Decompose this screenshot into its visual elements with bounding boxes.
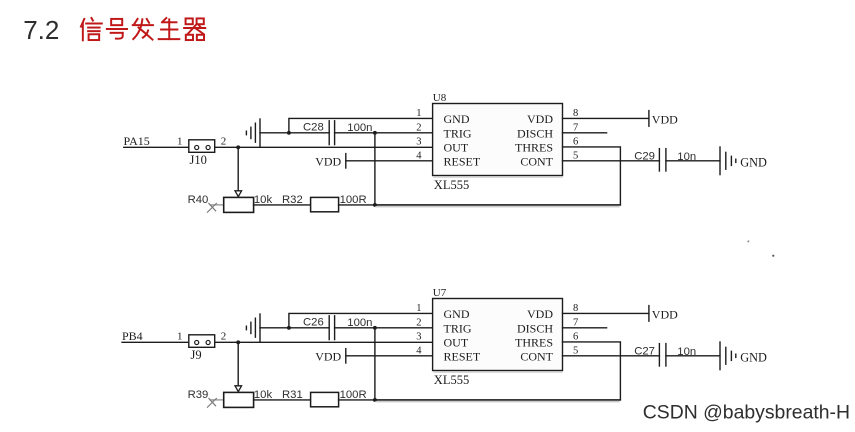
wire junction down to R40 wiper: [237, 147, 239, 190]
svg-text:R40: R40: [188, 194, 209, 206]
connector J10: [189, 140, 215, 153]
wire junction down to R39 wiper: [237, 342, 239, 385]
svg-text:8: 8: [573, 303, 578, 314]
svg-text:TRIG: TRIG: [444, 126, 472, 140]
svg-text:VDD: VDD: [315, 349, 341, 363]
wire PA15 to J10: [124, 146, 189, 148]
svg-text:VDD: VDD: [527, 307, 553, 321]
svg-text:4: 4: [416, 150, 422, 161]
resistor R32: [311, 197, 339, 211]
wire shadow: [376, 401, 619, 403]
junction node at J10 output: [236, 145, 240, 149]
svg-text:R32: R32: [282, 194, 303, 206]
ground symbol (left, at C26/pin1): [259, 314, 261, 342]
capacitor C28: [289, 132, 329, 134]
号: [107, 19, 127, 39]
wire pin7 DISCH stub: [563, 327, 607, 329]
wire TRIG down to RC node: [374, 328, 376, 400]
wire ground to C28 node: [260, 132, 289, 134]
svg-text:CONT: CONT: [520, 155, 553, 169]
svg-text:100n: 100n: [347, 317, 372, 329]
wire TRIG down to RC node: [374, 133, 376, 205]
capacitor C26: [289, 327, 329, 329]
svg-text:5: 5: [573, 150, 578, 161]
svg-text:C26: C26: [303, 317, 324, 329]
op IC U7 body: [433, 299, 563, 371]
svg-text:CONT: CONT: [520, 350, 553, 364]
potentiometer R39: [210, 399, 224, 401]
wire shadow: [434, 371, 562, 373]
svg-text:2: 2: [416, 317, 421, 328]
arrowhead into R39 wiper: [235, 386, 242, 392]
svg-text:GND: GND: [740, 350, 767, 364]
svg-text:2: 2: [221, 331, 227, 343]
svg-text:THRES: THRES: [515, 140, 553, 154]
svg-text:VDD: VDD: [652, 307, 678, 321]
wire pin7 DISCH stub: [563, 132, 607, 134]
svg-text:1: 1: [177, 331, 183, 343]
node at C28 left / pin1 corner: [287, 131, 291, 135]
wire ground to C26 node: [260, 327, 289, 329]
svg-text:U7: U7: [433, 287, 447, 299]
svg-text:C28: C28: [303, 122, 324, 134]
svg-text:6: 6: [573, 137, 578, 148]
svg-text:7: 7: [573, 122, 578, 133]
wire pin8 to VDD port: [563, 312, 649, 314]
wire J9 to IC pin3 OUT: [215, 341, 433, 343]
wire J10 to IC pin3 OUT: [215, 146, 433, 148]
svg-text:100n: 100n: [347, 122, 372, 134]
capacitor C27: [658, 344, 660, 366]
power port VDD right: [648, 306, 650, 322]
svg-text:U8: U8: [433, 92, 447, 104]
wire pin8 to VDD port: [563, 117, 649, 119]
svg-text:PA15: PA15: [124, 134, 150, 148]
svg-text:TRIG: TRIG: [444, 321, 472, 335]
svg-text:DISCH: DISCH: [517, 321, 553, 335]
发: [133, 19, 153, 40]
wire pot to R31: [254, 399, 311, 401]
wire corner up to IC pin1 GND: [289, 118, 433, 132]
svg-text:VDD: VDD: [315, 154, 341, 168]
svg-text:J9: J9: [191, 348, 202, 362]
svg-text:3: 3: [416, 137, 421, 148]
svg-text:PB4: PB4: [122, 329, 143, 343]
svg-text:RESET: RESET: [444, 155, 481, 169]
svg-text:1: 1: [416, 303, 421, 314]
op IC U8 body: [433, 104, 563, 176]
器: [184, 18, 205, 40]
svg-text:10n: 10n: [677, 151, 696, 163]
ground symbol (left, at C28/pin1): [259, 119, 261, 147]
svg-text:CSDN @babysbreath-H: CSDN @babysbreath-H: [643, 401, 850, 423]
信: [81, 18, 102, 40]
svg-text:GND: GND: [740, 155, 767, 169]
wire corner up to IC pin1 GND: [289, 313, 433, 327]
junction node TRIG tie: [373, 326, 377, 330]
node at C26 left / pin1 corner: [287, 326, 291, 330]
junction node RC: [373, 203, 377, 207]
power port VDD right: [648, 111, 650, 127]
svg-text:VDD: VDD: [527, 112, 553, 126]
svg-text:GND: GND: [444, 112, 470, 126]
svg-text:GND: GND: [444, 307, 470, 321]
svg-text:5: 5: [573, 345, 578, 356]
svg-text:OUT: OUT: [444, 140, 469, 154]
resistor R31: [311, 392, 339, 406]
svg-text:8: 8: [573, 108, 578, 119]
svg-text:XL555: XL555: [434, 373, 469, 387]
svg-text:1: 1: [416, 108, 421, 119]
potentiometer R40: [210, 204, 224, 206]
wiper arrow shaft marker dots (stray specks): [747, 240, 749, 242]
wire R31 to THRES corner: [339, 399, 621, 401]
heading hanzi 信号发生器 (drawn strokes, red): [81, 18, 205, 40]
wire pot to R32: [254, 204, 311, 206]
wire R32 to THRES corner: [339, 204, 621, 206]
junction node TRIG tie: [373, 131, 377, 135]
svg-text:R39: R39: [188, 389, 209, 401]
junction node at J9 output: [236, 340, 240, 344]
svg-text:THRES: THRES: [515, 335, 553, 349]
connector J9: [189, 335, 215, 348]
svg-text:OUT: OUT: [444, 335, 469, 349]
svg-text:R31: R31: [282, 389, 303, 401]
wire pin6 THRES feedback: [375, 147, 621, 205]
junction node RC: [373, 398, 377, 402]
wire pin5 CONT to C27: [563, 355, 660, 357]
svg-text:2: 2: [416, 122, 421, 133]
svg-text:7: 7: [573, 317, 578, 328]
svg-text:3: 3: [416, 332, 421, 343]
svg-text:RESET: RESET: [444, 350, 481, 364]
svg-text:1: 1: [177, 136, 183, 148]
svg-text:6: 6: [573, 332, 578, 343]
ground symbol right GND: [719, 147, 721, 175]
svg-text:DISCH: DISCH: [517, 126, 553, 140]
arrowhead into R40 wiper: [235, 191, 242, 197]
svg-text:2: 2: [221, 136, 227, 148]
svg-text:XL555: XL555: [434, 178, 469, 192]
svg-text:VDD: VDD: [652, 112, 678, 126]
power port VDD at RESET: [345, 349, 347, 363]
wire shadow: [434, 176, 562, 178]
wire pin5 CONT to C29: [563, 160, 660, 162]
生: [159, 18, 180, 39]
wire shadow: [376, 206, 619, 208]
capacitor C29: [658, 149, 660, 171]
ground symbol right GND: [719, 342, 721, 370]
svg-text:7.2: 7.2: [23, 15, 59, 45]
svg-text:J10: J10: [190, 153, 207, 167]
wire PB4 to J9: [122, 341, 189, 343]
wire pin6 THRES feedback: [375, 342, 621, 400]
power port VDD at RESET: [345, 154, 347, 168]
svg-text:10n: 10n: [677, 346, 696, 358]
svg-text:C27: C27: [634, 345, 655, 357]
svg-text:4: 4: [416, 345, 422, 356]
svg-text:C29: C29: [634, 150, 655, 162]
